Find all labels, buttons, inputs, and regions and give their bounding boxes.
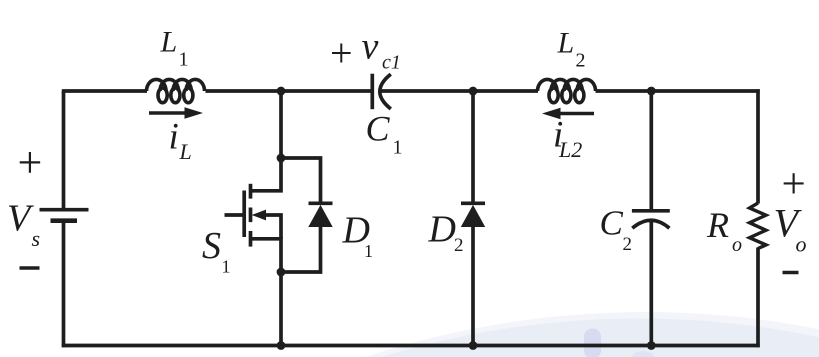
node E (L2/C2/Ro junction) [647, 87, 656, 96]
svg-text:+: + [330, 31, 353, 76]
arrow iL2 [542, 108, 594, 119]
svg-text:S: S [202, 225, 221, 267]
svg-text:D: D [428, 209, 456, 251]
svg-text:1: 1 [222, 257, 231, 277]
svg-text:o: o [732, 234, 742, 256]
svg-text:L2: L2 [558, 137, 582, 162]
arrow iL [149, 107, 203, 118]
svg-text:o: o [796, 232, 807, 257]
svg-text:L: L [160, 26, 178, 59]
wire C2 upper (top rail to plate) [649, 91, 653, 211]
label Vs minus [20, 266, 40, 270]
svg-text:C: C [600, 204, 624, 243]
svg-text:C: C [366, 109, 391, 149]
channel segment body [249, 208, 253, 223]
wire right vertical upper (top rail to Ro) [756, 89, 760, 203]
capacitor C2 [632, 211, 670, 228]
inductor L2 [538, 79, 596, 102]
svg-text:1: 1 [393, 137, 403, 159]
wire S1 drain vertical (top rail to D1 branch node) [279, 91, 283, 158]
svg-text:i: i [169, 117, 179, 158]
label Vo minus [783, 271, 799, 275]
wire right vertical lower (Ro to bottom rail) [756, 248, 760, 348]
transistor S1 (MOSFET) [225, 184, 251, 247]
inductor L1 [147, 79, 205, 102]
channel segment source [249, 231, 253, 247]
svg-text:2: 2 [576, 50, 586, 72]
wire C2 lower (plate to bottom rail) [649, 221, 653, 346]
node D (C1/D2/L2 junction) [469, 87, 478, 96]
svg-text:v: v [362, 26, 379, 68]
wire left vertical upper (Vs to top rail) [62, 91, 66, 209]
wire S1 source lead [250, 239, 281, 272]
capacitor C1 [372, 74, 391, 110]
svg-text:L: L [557, 27, 575, 60]
svg-text:2: 2 [454, 235, 464, 256]
diode D2 [461, 203, 485, 227]
svg-text:c1: c1 [382, 52, 401, 74]
node C (D1 bottom junction) [277, 268, 286, 277]
wire left vertical lower (Vs to bottom rail) [62, 221, 66, 348]
wire D2 anode lower (to bottom rail) [471, 226, 475, 346]
node F (S1 bottom rail junction) [277, 341, 286, 350]
gate bar [242, 191, 246, 238]
svg-text:1: 1 [364, 241, 373, 261]
svg-text:1: 1 [179, 49, 189, 71]
diode D1 [308, 203, 332, 227]
wire S1 source to bottom rail [279, 272, 283, 346]
wire top rail C1 to L2 [382, 89, 539, 93]
node B (D1 top junction) [277, 154, 286, 163]
svg-text:s: s [32, 226, 41, 251]
svg-text:2: 2 [623, 234, 633, 255]
node H (C2 bottom rail junction) [647, 341, 656, 350]
svg-text:L: L [179, 139, 192, 164]
node G (D2 bottom rail junction) [469, 341, 478, 350]
wire top rail left segment [62, 89, 147, 93]
wire S1 drain lead [250, 158, 281, 191]
node A (L1/C1/S1 junction) [277, 87, 286, 96]
S1 body arrow [252, 210, 267, 221]
wire S1 body tie [265, 215, 282, 239]
svg-text:+: + [18, 138, 43, 187]
svg-text:R: R [706, 205, 729, 245]
watermark [0, 312, 819, 357]
wire D2 cathode upper (top rail to diode) [471, 91, 475, 204]
wire bottom rail [62, 344, 760, 348]
svg-text:V: V [7, 198, 34, 240]
wire D1 branch top [281, 158, 321, 204]
channel segment drain [249, 184, 253, 199]
gate lead [225, 213, 245, 217]
resistor Ro [750, 203, 767, 249]
voltage source Vs (battery) [40, 210, 89, 221]
wire top rail L1 to C1 [206, 89, 373, 93]
wire top rail L2 to right corner [596, 89, 760, 93]
wire D1 branch bottom [281, 226, 321, 272]
